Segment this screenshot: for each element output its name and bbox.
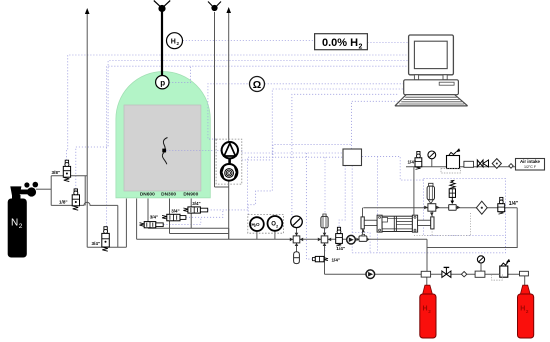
DN600 solenoid valve	[140, 222, 164, 228]
ohm conductivity sensor circle	[250, 77, 265, 92]
filter2 above cross3	[427, 183, 434, 203]
wire drop to filter solenoid	[324, 157, 326, 253]
vent to atmosphere symbol (main, thick stack)	[154, 1, 170, 76]
1/4 air regulator on top row	[415, 152, 422, 170]
wire display box to monitor	[367, 42, 408, 44]
wire: filter2 drop	[430, 203, 432, 206]
wire vessel sensor to ohm circle	[208, 84, 250, 139]
0.0% H2 display box	[315, 34, 368, 51]
H2 pressure regulator with handle	[492, 259, 510, 280]
diamond filter on air row	[492, 159, 501, 169]
junction box (PLC)	[343, 149, 362, 166]
N2 bottle	[8, 182, 38, 258]
H2 bottle 2	[518, 285, 534, 338]
wire: O2 analyser stem	[274, 231, 276, 240]
wire valve DN600 solenoid	[163, 217, 200, 224]
inline filter on main pipe	[321, 214, 328, 228]
svg-text:Ω: Ω	[253, 79, 261, 91]
wire: air drive down line	[413, 167, 415, 215]
3/4 inch regulator (N2 feed)	[102, 227, 110, 251]
wire: sample point drop	[296, 239, 298, 252]
svg-text:1/4": 1/4"	[509, 201, 519, 207]
svg-text:2: 2	[19, 223, 23, 230]
gauge on bottom pipe	[477, 256, 484, 263]
wire: bottle1 stem	[426, 274, 428, 285]
svg-text:0.0% H: 0.0% H	[322, 37, 358, 49]
wire: regulator bus vertical right	[84, 176, 86, 206]
flow indicator circle on main pipe	[347, 235, 356, 244]
wire p sensor up to computer run	[169, 66, 190, 82]
sampling solenoid valve 1/4	[313, 256, 329, 261]
bottom pipe: fitting above bottle1	[421, 271, 430, 277]
svg-text:3/4": 3/4"	[92, 241, 101, 246]
svg-text:O: O	[256, 222, 260, 227]
wire: DN300 collector	[170, 233, 229, 235]
arrow head on N2 vent riser	[85, 8, 90, 14]
O2 analyser circle	[268, 216, 283, 231]
svg-text:3/8": 3/8"	[52, 170, 61, 175]
air gauge	[428, 151, 436, 159]
svg-text:H: H	[520, 306, 525, 313]
p pressure sensor circle	[156, 76, 169, 89]
wire: DN600/DN900 collector	[148, 227, 229, 229]
svg-text:H: H	[171, 38, 176, 45]
DN900 solenoid valve	[183, 207, 207, 213]
wire: regulator bus vertical left	[50, 176, 52, 206]
wire: vent line left of vessel	[214, 12, 216, 187]
svg-text:3/4": 3/4"	[192, 201, 200, 206]
svg-text:1/4": 1/4"	[332, 257, 341, 262]
fitting on bottom pipe	[475, 271, 485, 277]
wire H2 analyser to display box	[183, 40, 315, 42]
wire: N2 purge vent riser	[86, 14, 88, 247]
wire junction box to 1/4 regulator	[339, 166, 345, 228]
computer: monitor	[409, 35, 454, 80]
wire: branch down right of 1/8 line	[117, 205, 119, 247]
wire: 3/4 regulator bottom run	[87, 246, 126, 248]
wire: filter stem	[324, 228, 326, 239]
computer: keyboard	[395, 95, 467, 106]
pump group dashed enclosure	[216, 139, 242, 184]
DN300 solenoid valve	[162, 214, 186, 221]
wire: gauge3 stem	[480, 263, 482, 274]
1/8 inch regulator	[72, 189, 79, 210]
small diamond on bottom pipe	[461, 272, 466, 277]
wire: N2 feed up to vessel	[125, 199, 127, 248]
thermocouple in furnace	[162, 138, 167, 165]
flow indicator circle on bottom H2 pipe	[366, 270, 375, 279]
arrow head on pump vent	[226, 7, 231, 13]
wire: DN900 valve line	[190, 199, 192, 229]
wire: drop through sampling solenoid to bottom pipe	[324, 239, 326, 274]
svg-text:DN600: DN600	[140, 191, 155, 197]
wire: N2 bottle outlet	[36, 188, 51, 190]
wire lower loop around compressor	[352, 236, 505, 253]
wire junction box to compressor group	[351, 166, 353, 253]
1/4 regulator on middle row	[498, 197, 505, 214]
wire valve DN300 solenoid	[186, 210, 223, 217]
wire: vent jog to pump line	[215, 186, 229, 188]
H2 analyser circle	[167, 33, 183, 49]
wire loop around air drive components	[424, 179, 506, 236]
hand valve on bottom pipe	[442, 267, 451, 277]
wire: bottom H2 pipe	[325, 273, 522, 275]
wire: gauge stem	[296, 228, 298, 240]
sample point capsule	[294, 252, 300, 264]
tee fitting to compressor	[356, 229, 369, 241]
wire thermocouple to junction box	[166, 151, 342, 154]
wire: down to bottle pipe	[426, 239, 428, 274]
diamond filter on middle row	[476, 201, 487, 214]
svg-text:1/4": 1/4"	[336, 246, 345, 252]
1/4 inch regulator on main pipe	[336, 227, 343, 246]
wire H2O/O2 analyser to computer (staircase)	[248, 89, 404, 215]
air pressure regulator with handle	[441, 149, 460, 174]
wire: middle distribution row	[363, 207, 517, 209]
wire: gauge2 stem	[431, 159, 433, 167]
blower motor lower circle	[221, 164, 238, 181]
wire 3/8 regulator to computer	[67, 55, 409, 160]
wire: DN600 valve line	[147, 199, 149, 229]
wire circulation pump to junction box	[242, 145, 351, 160]
fitting above bottle2	[520, 271, 529, 276]
wire: bottle2 stem	[524, 274, 526, 285]
wire to sampling solenoid	[306, 153, 312, 259]
wire: 1/8 regulator line with crossover bump	[51, 202, 118, 205]
vessel dome (glove box)	[116, 72, 210, 198]
svg-text:DN300: DN300	[161, 191, 176, 197]
fitting on air row	[464, 161, 474, 167]
wire: row down to compressor right cap	[431, 211, 433, 217]
H2O analyser circle	[250, 217, 264, 231]
vent to atmosphere symbol (second)	[208, 2, 221, 11]
wire 3/4 regulator to computer	[107, 66, 409, 226]
wire: main sampling pipe	[137, 238, 427, 240]
wire ohm sensor to computer	[265, 83, 404, 85]
H2O / O2 analyser dashed box	[248, 215, 284, 234]
svg-text:2: 2	[428, 309, 431, 314]
wire valve solenoids to junction box	[208, 157, 343, 210]
wire: compressor feed riser	[362, 229, 364, 236]
svg-text:2: 2	[359, 43, 363, 50]
wire: collector drop	[228, 228, 230, 239]
wire: air intake top row	[406, 166, 516, 168]
wire: vessel drain to main pipe	[136, 199, 138, 240]
svg-text:p: p	[160, 78, 165, 87]
wire junction box to air drive group	[362, 156, 424, 180]
H2 bottle 1	[420, 285, 436, 338]
small diamond at air intake	[509, 164, 513, 169]
svg-text:3/4": 3/4"	[171, 208, 179, 213]
svg-text:Air intake: Air intake	[520, 159, 541, 164]
wire: pump line lower to main pipe	[228, 181, 230, 240]
wire: return line right	[427, 208, 517, 248]
wire drop to compressor group	[377, 156, 379, 252]
svg-text:N: N	[11, 218, 18, 229]
computer: system unit	[404, 80, 459, 95]
svg-text:1/8": 1/8"	[59, 200, 68, 205]
wire: 3/8 regulator line	[51, 175, 87, 177]
svg-text:1/4": 1/4"	[408, 160, 417, 165]
furnace gray chamber	[124, 105, 201, 191]
svg-text:H: H	[423, 306, 428, 313]
svg-text:1/2"C F: 1/2"C F	[524, 165, 537, 169]
wire junction box to keyboard	[352, 101, 398, 149]
vertical solenoid above middle row	[449, 180, 455, 204]
wire gauge/sample to keyboard	[292, 94, 398, 216]
wire: DN300 valve line	[169, 199, 171, 234]
pressure gauge (main pipe)	[291, 216, 303, 228]
svg-text:2: 2	[526, 309, 529, 314]
Air intake box	[516, 159, 545, 171]
wire: H2O analyser stem	[256, 231, 258, 239]
svg-text:3/4": 3/4"	[150, 215, 158, 220]
svg-text:DN900: DN900	[183, 191, 198, 197]
fitting on middle row	[449, 205, 461, 211]
circulation fan upper circle	[222, 142, 238, 164]
wire 1/8 regulator to computer	[76, 61, 409, 189]
cross fitting 1	[290, 233, 303, 246]
cross fitting 3	[424, 204, 440, 216]
wire: compressor cap to middle row	[362, 208, 364, 217]
globe valve on air row	[477, 160, 488, 167]
wire: pump riser upper	[228, 12, 230, 142]
compressor (gas booster)	[361, 215, 434, 232]
cross fitting 2	[318, 233, 331, 246]
3/8 inch regulator	[63, 160, 70, 181]
